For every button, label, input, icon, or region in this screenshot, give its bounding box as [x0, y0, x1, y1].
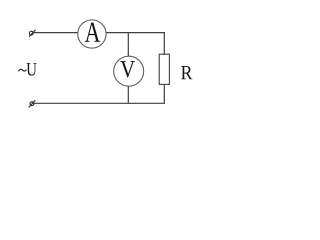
wire (voltmeter branch, junction to voltmeter top): [127, 33, 129, 57]
source label tilde of ~U: [18, 69, 26, 71]
wire (right rail, bottom segment): [163, 84, 165, 103]
wire (bottom rail): [34, 102, 165, 104]
resistor label R: [181, 66, 192, 79]
resistor R1 (rectangle body): [159, 54, 169, 84]
wire (top rail: terminal to ammeter): [33, 32, 78, 34]
wire (right rail, top segment): [163, 32, 165, 54]
wire (voltmeter bottom to bottom rail): [127, 86, 129, 103]
wire (top rail: ammeter to top-right corner): [106, 32, 165, 34]
ammeter label A: [85, 23, 100, 42]
terminal X1 (top-left input clamp): [29, 30, 36, 37]
voltmeter label V: [120, 61, 135, 77]
voltmeter U2 (circle body): [114, 56, 144, 86]
ammeter U1 (circle body): [78, 20, 106, 48]
source label U: [26, 63, 36, 76]
terminal X2 (bottom-left input clamp): [29, 100, 36, 107]
